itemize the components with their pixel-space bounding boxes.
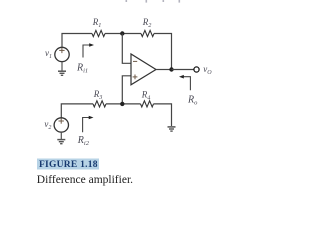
input impedance arrow Ri2	[83, 116, 94, 133]
op-amp minus sign	[133, 60, 137, 62]
voltage source v2	[54, 118, 68, 132]
output impedance arrow Ro	[179, 75, 190, 90]
resistor R2	[141, 30, 154, 36]
figure label highlight box	[37, 159, 99, 170]
resistor R3	[93, 101, 106, 107]
ground (below v1)	[58, 62, 66, 76]
node B (junction dot, bottom)	[120, 102, 124, 106]
wire: node C to output terminal	[172, 69, 194, 71]
svg-text:v2: v2	[44, 119, 51, 131]
wire: v2 top corner to R3 (bottom-left horizontal)	[61, 104, 93, 118]
ground (right, below R4)	[168, 127, 176, 131]
svg-text:vO: vO	[203, 64, 212, 76]
ground (below v2)	[57, 132, 65, 144]
svg-text:R1: R1	[92, 17, 102, 29]
wire: R1 to node A and on to R2	[105, 33, 141, 35]
svg-text:R3: R3	[93, 89, 103, 101]
op-amp plus sign	[133, 75, 138, 80]
node C (output junction dot)	[169, 67, 173, 71]
output terminal (open circle)	[194, 67, 199, 72]
svg-text:Ro: Ro	[187, 94, 198, 106]
input impedance arrow Ri1	[83, 43, 94, 57]
resistor R1	[92, 30, 105, 36]
svg-text:Ri1: Ri1	[76, 62, 88, 74]
svg-text:FIGURE 1.18: FIGURE 1.18	[39, 160, 98, 170]
wire: node A down to inverting input	[122, 34, 131, 64]
svg-text:R2: R2	[142, 17, 152, 29]
wire: noninverting input down to node B	[122, 76, 131, 104]
svg-text:Difference amplifier.: Difference amplifier.	[37, 174, 133, 186]
wire: v1 top corner to R1 (top-left horizontal)	[62, 34, 92, 48]
cropped text fragments (top edge)	[126, 0, 181, 3]
wire: R3 to node B and on to R4	[106, 103, 141, 105]
wire: R4 right corner down to ground	[154, 104, 172, 126]
resistor R4	[141, 101, 154, 107]
op-amp U1	[131, 54, 156, 85]
node A (junction dot, top)	[120, 31, 124, 35]
svg-text:v1: v1	[45, 48, 52, 60]
svg-text:Ri2: Ri2	[77, 135, 90, 147]
svg-text:R4: R4	[141, 89, 151, 101]
voltage source v1	[55, 47, 69, 61]
wire: op-amp output to node C	[156, 69, 172, 71]
wire: R2 to top-right corner down to output node	[154, 34, 172, 70]
